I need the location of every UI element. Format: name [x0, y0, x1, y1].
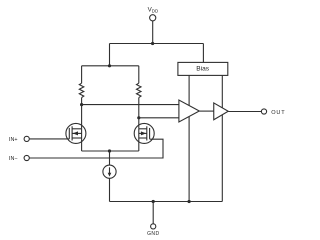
wire rail down to resistor bus [109, 44, 111, 66]
svg-text:IN−: IN− [9, 156, 18, 162]
wire node A to amplifier A1 input [82, 104, 179, 106]
amplifier A2 [214, 103, 229, 120]
wire R1 top [81, 66, 83, 83]
wire Q1 drain [81, 105, 83, 129]
amplifier A1 [179, 100, 199, 122]
transistor Q2 [134, 123, 154, 143]
wire IN+ to Q1 gate [29, 138, 69, 140]
wire tail to current source [109, 151, 111, 165]
terminal IN- [24, 155, 29, 160]
current source I1 [103, 165, 116, 178]
wire A1 to ground rail [188, 117, 190, 202]
svg-text:GND: GND [147, 231, 159, 237]
svg-text:Bias: Bias [196, 66, 210, 73]
svg-text:IN+: IN+ [9, 137, 18, 143]
node A1 ground junction [188, 200, 191, 203]
wire node B to amplifier A1 input [139, 117, 179, 119]
wire rail to bias block [202, 44, 204, 63]
wire R2 bottom to node B [138, 98, 140, 118]
resistor R2 [137, 83, 142, 97]
node VDD rail junction [151, 42, 154, 45]
terminal IN+ [24, 136, 29, 141]
wire IN- to Q2 gate [29, 139, 163, 158]
wire Q2 source [138, 129, 140, 151]
wire bottom rail [110, 201, 223, 203]
svg-text:OUT: OUT [271, 110, 285, 116]
node A first-stage output plus [80, 103, 83, 106]
wire VDD to top rail [152, 21, 154, 44]
bias block [178, 62, 228, 75]
wire GND stem [152, 202, 154, 224]
wire Q2 drain [138, 118, 140, 129]
node tail junction [108, 149, 111, 152]
wire resistor top bus [82, 65, 139, 67]
terminal OUT [261, 109, 266, 114]
svg-text:VDD: VDD [148, 6, 158, 13]
wire OUT [228, 111, 261, 113]
wire current source to bottom rail [109, 178, 111, 201]
terminal VDD [150, 15, 156, 21]
wire bias to amplifier A1 [188, 75, 190, 105]
wire top rail [110, 43, 204, 45]
wire R2 top [138, 66, 140, 83]
wire bias to amplifier A2 [221, 75, 223, 108]
wire A2 to ground rail [221, 115, 223, 202]
wire common source bus [82, 150, 139, 152]
terminal GND [151, 224, 156, 229]
wire R1 bottom [81, 98, 83, 105]
resistor R1 [79, 83, 84, 97]
node resistor bus junction [108, 64, 111, 67]
wire A1 output to A2 input [199, 110, 213, 112]
wire Q1 source [81, 129, 83, 151]
transistor Q1 [66, 123, 86, 143]
node B first-stage output minus [137, 116, 140, 119]
node GND tap [152, 200, 155, 203]
